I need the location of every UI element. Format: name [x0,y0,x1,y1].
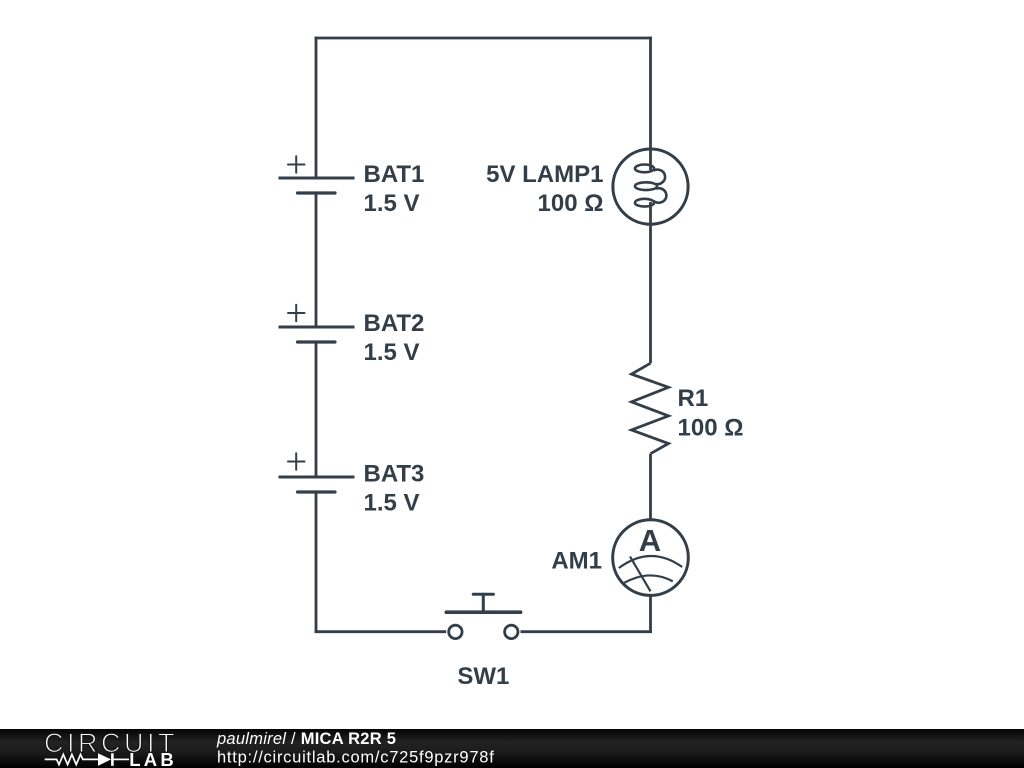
svg-text:100 Ω: 100 Ω [678,414,744,441]
svg-text:R1: R1 [678,385,709,412]
svg-text:BAT3: BAT3 [364,461,425,488]
svg-text:5V LAMP1: 5V LAMP1 [486,161,603,188]
svg-text:1.5 V: 1.5 V [364,490,420,517]
svg-text:A: A [639,523,661,558]
svg-text:BAT2: BAT2 [364,310,425,337]
svg-text:AM1: AM1 [551,548,602,575]
svg-text:SW1: SW1 [457,663,509,690]
svg-text:BAT1: BAT1 [364,161,425,188]
svg-text:1.5 V: 1.5 V [364,339,420,366]
svg-text:paulmirel / MICA R2R 5: paulmirel / MICA R2R 5 [216,730,396,748]
svg-text:LAB: LAB [129,749,177,768]
svg-text:http://circuitlab.com/c725f9pz: http://circuitlab.com/c725f9pzr978f [217,749,495,767]
svg-text:1.5 V: 1.5 V [364,190,420,217]
svg-text:100 Ω: 100 Ω [538,190,604,217]
